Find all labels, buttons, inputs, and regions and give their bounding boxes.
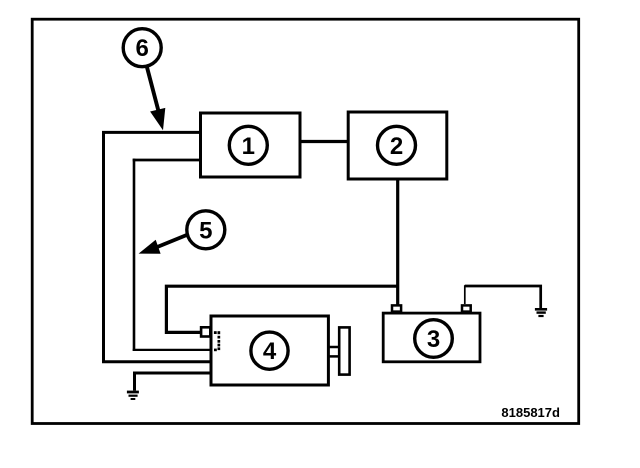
callout circle 5 (187, 211, 225, 249)
arrow from callout 6 (147, 67, 166, 131)
ground symbol right (535, 309, 547, 316)
svg-text:4: 4 (263, 338, 277, 365)
component box 4 (211, 316, 328, 385)
callout circle 6 (123, 29, 161, 67)
border frame (32, 19, 579, 423)
svg-text:8185817d: 8185817d (501, 405, 560, 420)
wire box1 to box2 (300, 140, 348, 143)
wire A: box1 left to box4 left (long loop) (104, 132, 212, 361)
battery negative terminal (462, 305, 471, 311)
svg-text:6: 6 (136, 35, 149, 62)
ground symbol left (127, 392, 139, 399)
wire B: box1 left to box4 left (inner loop) (133, 159, 211, 351)
wire box2 bottom to battery positive terminal (396, 179, 399, 305)
figure id text 8185817d (501, 405, 560, 420)
callout circle 1 (229, 126, 267, 164)
wire battery feed to box4 connector (166, 286, 397, 332)
wire battery negative to ground (465, 285, 541, 308)
arrow from callout 5 (139, 234, 189, 254)
callout circle 3 (415, 320, 453, 358)
callout circle 2 (378, 126, 416, 164)
battery positive terminal (392, 305, 401, 311)
component box 2 (348, 112, 447, 179)
connector plug on box 4 (201, 327, 210, 336)
bracket plate right of box 4 (339, 327, 349, 374)
svg-text:5: 5 (199, 217, 212, 244)
ground wire from box 4 (135, 373, 212, 391)
svg-text:3: 3 (427, 326, 440, 353)
svg-text:2: 2 (390, 133, 403, 160)
dashed connector outline (214, 331, 220, 351)
callout circle 4 (251, 332, 288, 369)
stub lines box4 right (330, 347, 340, 356)
svg-text:1: 1 (242, 133, 255, 160)
battery box 3 (383, 313, 480, 362)
component box 1 (201, 113, 301, 177)
